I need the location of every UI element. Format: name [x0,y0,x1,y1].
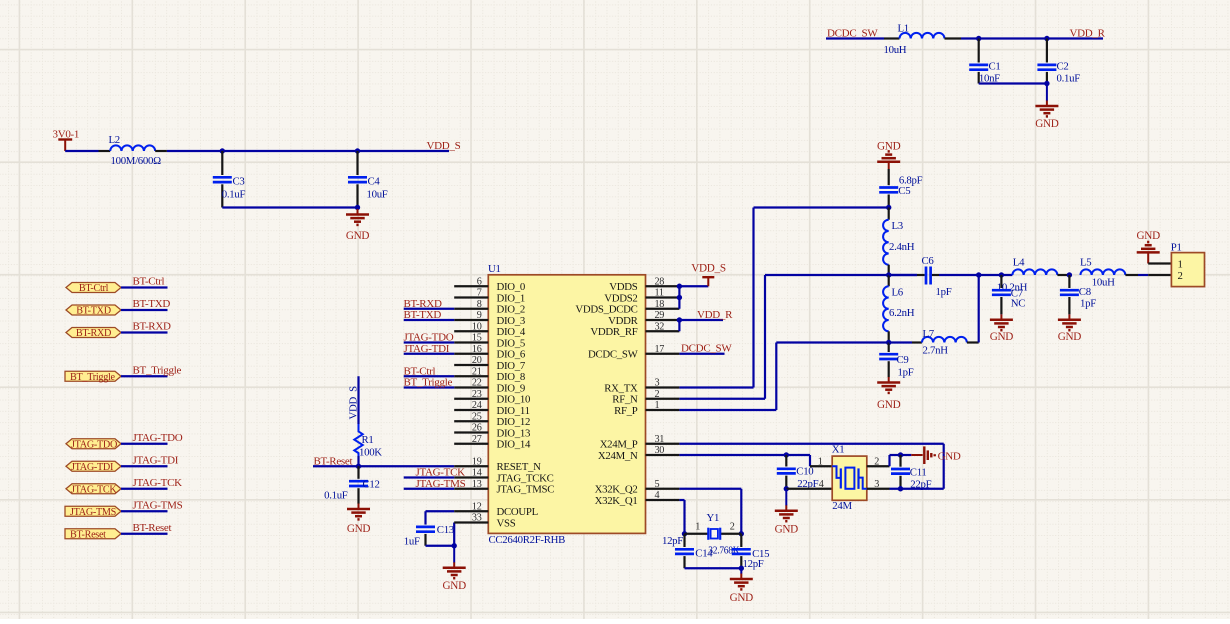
inductor L6 6.2nH [883,275,915,343]
wire VDDS group riser [678,286,680,309]
svg-text:GND: GND [1035,118,1059,130]
svg-text:JTAG-TDO: JTAG-TDO [133,432,183,444]
inductor L7 2.7nH [889,328,979,356]
svg-text:DIO_6: DIO_6 [497,349,526,361]
U1 pin 25 DIO_12 [454,411,530,428]
U1 pin 7 DIO_1 [454,288,525,305]
wire from port JTAG-TMS [121,510,168,512]
ground below C12 [347,504,371,536]
svg-text:DIO_8: DIO_8 [497,371,526,383]
wire X24M_N pin 30 [679,454,786,456]
svg-text:C2: C2 [1057,61,1069,73]
svg-text:100K: 100K [359,447,382,459]
wire L2 to VDD_S [167,150,449,152]
svg-text:JTAG_TCKC: JTAG_TCKC [497,472,554,484]
capacitor C15 12pF [732,534,769,570]
svg-text:NC: NC [1011,297,1025,309]
svg-text:L1: L1 [898,23,909,35]
node junction VSS ground [452,543,457,548]
svg-text:RF_N: RF_N [612,394,638,406]
svg-text:DIO_10: DIO_10 [497,394,531,406]
svg-text:33: 33 [472,513,482,524]
svg-text:GND: GND [938,451,961,463]
U1 pin 16 DIO_6 [454,344,526,361]
node junction L7 main [976,272,981,277]
inductor L5 10uH [1080,257,1138,289]
U1 pin 30 X24M_N [598,445,679,462]
svg-text:DIO_5: DIO_5 [497,337,526,349]
svg-text:C9: C9 [897,354,909,366]
svg-text:JTAG-TDI: JTAG-TDI [133,454,179,466]
svg-text:20: 20 [472,355,482,366]
U1 pin 31 X24M_P [600,434,680,451]
svg-text:RX_TX: RX_TX [604,382,638,394]
svg-text:31: 31 [655,434,665,445]
svg-text:JTAG-TMS: JTAG-TMS [70,507,117,518]
svg-text:2: 2 [730,521,735,532]
svg-text:21: 21 [472,366,482,377]
wire from port BT-RXD [121,331,168,333]
U1 pin 27 DIO_14 [454,434,531,451]
svg-text:U1: U1 [488,263,501,275]
node junction Y1 pin1 C14 [682,531,687,536]
svg-text:1: 1 [1178,259,1183,271]
U1 pin 28 VDDS [609,276,679,293]
svg-text:23: 23 [472,389,482,400]
svg-text:BT-TXD: BT-TXD [76,306,111,317]
crystal X1 24M body [832,444,867,512]
ground below VSS [443,546,467,592]
wire net BT_Triggle to pin 22 [404,386,455,388]
svg-text:DCDC_SW: DCDC_SW [681,343,732,355]
svg-text:1: 1 [655,400,660,411]
svg-text:10: 10 [472,321,482,332]
svg-text:JTAG-TMS: JTAG-TMS [133,499,183,511]
svg-text:BT-Ctrl: BT-Ctrl [133,276,165,288]
svg-text:VDDR_RF: VDDR_RF [590,326,637,338]
wire net JTAG-TDO to pin 15 [404,341,455,343]
U1 pin 14 JTAG_TCKC [454,468,553,485]
svg-text:GND: GND [775,524,799,536]
node junction Y1 pin2 C15 [739,531,744,536]
inductor L3 2.4nH [883,208,915,276]
svg-text:L4: L4 [1013,257,1025,269]
node junction C1 top [976,36,981,41]
svg-text:BT-Ctrl: BT-Ctrl [79,283,109,294]
svg-text:24: 24 [472,400,482,411]
svg-text:DIO_9: DIO_9 [497,382,526,394]
port JTAG-TDI [66,461,121,473]
svg-text:BT-Ctrl: BT-Ctrl [404,365,436,377]
wire pin17 DCDC_SW [679,353,724,355]
ground below C10 [775,489,799,536]
capacitor C10 22pF [777,455,819,490]
node junction pin 29 [677,317,682,322]
svg-text:RF_P: RF_P [614,405,638,417]
svg-text:8: 8 [477,299,482,310]
svg-text:18: 18 [655,299,665,310]
wire DCOUPL to C13 [426,511,455,524]
U1 pin 1 RF_P [614,400,679,417]
svg-text:DIO_7: DIO_7 [497,360,526,372]
wire from port BT-Ctrl [121,286,168,288]
svg-text:BT-RXD: BT-RXD [133,321,171,333]
wire C14 bottom to C15 bottom [685,567,742,569]
U1 pin 20 DIO_7 [454,355,526,372]
U1 pin 12 DCOUPL [454,501,538,518]
svg-text:1: 1 [695,521,700,532]
svg-text:DIO_2: DIO_2 [497,304,526,316]
wire VDD_S vertical to R1 [348,376,360,424]
svg-text:15: 15 [472,333,482,344]
svg-text:JTAG-TDO: JTAG-TDO [71,439,117,450]
svg-text:C5: C5 [898,185,910,197]
wire net JTAG-TDI to pin 16 [404,353,455,355]
svg-text:7: 7 [477,288,482,299]
svg-text:VDDR: VDDR [608,315,638,327]
svg-text:X24M_N: X24M_N [598,450,638,462]
svg-text:1pF: 1pF [898,367,914,379]
ground above C5 [877,140,901,185]
U1 pin 8 DIO_2 [454,299,525,316]
wire pin29 VDD_R [679,319,723,321]
U1 pin 24 DIO_11 [454,400,529,417]
svg-text:30: 30 [655,445,665,456]
U1 pin 3 RX_TX [604,378,679,395]
wire net JTAG-TCK to pin 14 [404,476,455,478]
U1 pin 9 DIO_3 [454,310,525,327]
power port VDD_S [691,262,726,286]
svg-text:P1: P1 [1171,241,1182,253]
wire net BT-TXD to pin 9 [404,319,455,321]
svg-text:6: 6 [477,276,482,287]
wire 3V0-1 to L2 [65,150,98,152]
svg-text:GND: GND [1058,331,1082,343]
svg-text:5: 5 [655,479,660,490]
svg-text:X1: X1 [832,444,845,456]
node junction C10 top [784,452,789,457]
U1 pin 11 VDDS2 [604,288,679,305]
wire C1 bottom to C2 bottom [979,82,1047,84]
power port 3V0-1 [53,129,80,151]
svg-text:VDD_R: VDD_R [697,309,733,321]
wire X24M_P pin 31 [679,443,943,445]
ground below C15 [730,568,754,604]
svg-text:6.2nH: 6.2nH [889,307,915,319]
svg-text:13: 13 [472,479,482,490]
U1 pin 26 DIO_13 [454,423,530,440]
wire from port JTAG-TCK [121,488,168,490]
svg-text:BT-Reset: BT-Reset [133,522,172,534]
svg-text:27: 27 [472,434,482,445]
capacitor C8 1pF [1060,275,1096,314]
svg-text:GND: GND [1137,230,1161,242]
capacitor C13 1uF [404,524,454,548]
svg-text:L5: L5 [1080,257,1091,269]
svg-text:L3: L3 [892,220,903,232]
port JTAG-TDO [66,439,121,451]
U1 pin 22 DIO_9 [454,378,525,395]
svg-text:R1: R1 [362,434,374,446]
node junction C3 top [220,148,225,153]
port BT-Ctrl [66,283,121,295]
svg-text:2: 2 [1178,270,1183,282]
svg-text:JTAG-TDI: JTAG-TDI [71,462,114,473]
svg-text:VSS: VSS [497,517,516,529]
U1 pin 32 VDDR_RF [590,321,679,338]
capacitor C11 22pF [891,455,932,490]
svg-text:DIO_13: DIO_13 [497,427,531,439]
wire from port BT-Reset [121,533,168,535]
svg-text:VDDS_DCDC: VDDS_DCDC [575,304,637,316]
U1 pin 4 X32K_Q1 [595,490,680,507]
svg-text:4: 4 [655,490,660,501]
U1 pin 6 DIO_0 [454,276,525,293]
svg-text:BT-RXD: BT-RXD [76,328,111,339]
U1 pin 19 RESET_N [454,456,541,473]
svg-text:BT-Reset: BT-Reset [70,529,106,540]
port JTAG-TCK [66,484,121,496]
svg-text:DIO_3: DIO_3 [497,315,526,327]
svg-text:C11: C11 [910,466,927,478]
svg-text:1pF: 1pF [1080,297,1096,309]
capacitor C14 12pF [662,534,713,569]
node junction C4 top [355,148,360,153]
node junction C15 bottom [739,566,744,571]
ground below C2 [1035,84,1059,131]
svg-text:11: 11 [655,288,664,299]
ground right of C11 rotated [901,446,961,464]
wire X32K_Q2 pin 5 [679,488,741,490]
wire pin28 to VDD_S power [679,285,708,287]
svg-text:C3: C3 [233,176,245,188]
svg-text:DIO_4: DIO_4 [497,326,526,338]
wire BT-Reset to RESET_N pin 19 [313,465,454,467]
node junction R1 C12 [356,464,361,469]
svg-text:17: 17 [655,344,665,355]
svg-text:2: 2 [655,389,660,400]
svg-text:DIO_14: DIO_14 [497,439,531,451]
U1 pin 5 X32K_Q2 [595,479,680,496]
svg-text:X32K_Q1: X32K_Q1 [595,495,638,507]
wire RF_N pin 2 to RF mid node [679,398,765,400]
net label DCDC_SW [826,28,884,40]
node junction C8 L5 [1067,272,1072,277]
U1 pin 2 RF_N [612,389,679,406]
svg-text:X32K_Q2: X32K_Q2 [595,484,638,496]
svg-text:C8: C8 [1079,286,1091,298]
node junction C11 top [898,452,903,457]
ground below C4 [346,208,370,243]
wire net BT-Ctrl to pin 21 [404,375,455,377]
svg-text:C12: C12 [363,479,380,491]
port BT_Triggle [65,371,121,383]
wire C3 bottom to C4 bottom [222,206,357,208]
svg-text:BT-RXD: BT-RXD [404,298,442,310]
svg-text:2.4nH: 2.4nH [889,241,915,253]
capacitor C9 1pF [879,343,913,379]
svg-text:VDD_S: VDD_S [427,140,461,152]
svg-text:VDD_S: VDD_S [691,262,726,274]
svg-text:DIO_0: DIO_0 [497,281,526,293]
svg-text:Y1: Y1 [707,512,720,524]
svg-text:JTAG-TDI: JTAG-TDI [404,343,450,355]
svg-text:L7: L7 [923,328,935,340]
U1 pin 29 VDDR [608,310,679,327]
wire net JTAG-TMS to pin 13 [404,488,455,490]
svg-text:16: 16 [472,344,482,355]
svg-text:GND: GND [730,592,754,604]
port BT-RXD [66,328,121,340]
svg-text:C10: C10 [796,465,813,477]
wire RX_TX pin 3 to RF top node [679,386,753,388]
capacitor C4 10uF [348,151,388,208]
svg-text:12pF: 12pF [743,558,764,570]
connector P1 [1171,241,1205,286]
svg-text:JTAG-TMS: JTAG-TMS [416,478,466,490]
svg-text:DIO_11: DIO_11 [497,405,530,417]
node junction C11 bottom [898,486,903,491]
svg-text:12pF: 12pF [662,535,683,547]
inductor L1 [884,23,962,57]
svg-text:JTAG-TCK: JTAG-TCK [133,477,183,489]
capacitor C5 6.8pF [879,174,922,207]
svg-text:10uH: 10uH [1092,276,1115,288]
capacitor C12 0.1uF [324,466,380,504]
svg-text:22: 22 [472,378,482,389]
svg-text:JTAG-TCK: JTAG-TCK [416,467,466,479]
svg-text:GND: GND [990,331,1014,343]
svg-text:0.1uF: 0.1uF [324,490,348,502]
ground below C9 [877,377,901,411]
svg-text:RESET_N: RESET_N [497,461,542,473]
svg-text:29: 29 [655,310,665,321]
wire from port JTAG-TDO [121,443,168,445]
svg-text:24M: 24M [832,500,852,512]
wire X1 pin 2 to C11 top [867,465,890,467]
op IC U1 body [488,275,645,534]
svg-text:C4: C4 [368,176,381,188]
wire X32K_Q1 pin 4 [679,499,684,501]
node junction pin 28 [677,284,682,289]
svg-text:10uF: 10uF [367,189,388,201]
node junction C2 bottom [1044,81,1049,86]
wire C6 to L4 [939,274,1012,276]
svg-text:BT_Triggle: BT_Triggle [404,377,453,389]
svg-text:GND: GND [877,399,901,411]
svg-text:BT_Triggle: BT_Triggle [70,372,116,383]
inductor L4 [1012,257,1069,276]
wire from port BT_Triggle [121,375,168,377]
port BT-TXD [66,305,121,317]
U1 pin 13 JTAG_TMSC [454,479,554,496]
svg-text:32: 32 [655,321,665,332]
node junction C2 top [1044,36,1049,41]
svg-text:GND: GND [443,580,467,592]
U1 pin 18 VDDS_DCDC [575,299,679,316]
svg-text:GND: GND [347,523,371,535]
svg-text:10uH: 10uH [884,44,907,56]
svg-text:JTAG-TDO: JTAG-TDO [404,332,454,344]
svg-text:26: 26 [472,423,482,434]
ground above P1 pin 1 [1137,230,1172,264]
wire RF_P pin 1 to RF bottom node [679,409,776,411]
capacitor C2 0.1uF [1037,39,1080,85]
svg-text:0.1uF: 0.1uF [222,189,246,201]
capacitor C7 NC [992,275,1025,314]
wire VDDR group riser [678,320,680,331]
wire C13 bottom to VSS node [426,545,455,547]
svg-text:GND: GND [877,140,901,152]
capacitor C6 1pF [889,255,952,298]
port JTAG-TMS [65,506,121,518]
wire X24M_N to X1 pin 1 [786,454,810,456]
svg-text:0.1uF: 0.1uF [1057,72,1081,84]
crystal Y1 32.768K [685,512,742,540]
svg-text:25: 25 [472,411,482,422]
svg-text:BT-TXD: BT-TXD [133,298,171,310]
svg-text:CC2640R2F-RHB: CC2640R2F-RHB [489,534,566,546]
svg-text:BT-TXD: BT-TXD [404,309,442,321]
svg-text:DCOUPL: DCOUPL [497,506,538,518]
U1 pin 33 VSS [454,513,516,530]
svg-text:C6: C6 [922,255,935,267]
wire X1 pin 3 to X24M_P riser [867,488,890,490]
capacitor C3 0.1uF [213,151,246,208]
svg-text:DIO_12: DIO_12 [497,416,531,428]
ground below C7 [990,314,1014,343]
node junction C4 bottom [355,205,360,210]
wire from port JTAG-TDI [121,465,168,467]
wire L5 to P1 [1138,274,1148,276]
svg-text:3: 3 [655,378,660,389]
svg-text:9: 9 [477,310,482,321]
U1 pin 21 DIO_8 [454,366,525,383]
node junction C10 bottom [784,486,789,491]
svg-text:14: 14 [472,468,482,479]
svg-text:1: 1 [818,456,823,467]
svg-text:L2: L2 [109,134,120,146]
node junction pin 11 [677,295,682,300]
svg-text:VDDS: VDDS [609,281,637,293]
U1 pin 17 DCDC_SW [588,344,679,361]
node junction RX_TX C5 L3 [886,205,891,210]
svg-text:DIO_1: DIO_1 [497,292,526,304]
svg-text:C13: C13 [437,524,454,536]
svg-text:1uF: 1uF [404,536,420,548]
svg-text:X24M_P: X24M_P [600,439,638,451]
svg-text:1pF: 1pF [936,286,952,298]
svg-text:28: 28 [655,276,665,287]
svg-text:JTAG_TMSC: JTAG_TMSC [497,484,555,496]
U1 pin 10 DIO_4 [454,321,526,338]
wire net BT-RXD to pin 8 [404,308,455,310]
svg-text:L6: L6 [892,287,904,299]
capacitor C1 10nF [969,39,1000,85]
inductor L2 100M/600ohm [99,134,167,167]
svg-text:JTAG-TCK: JTAG-TCK [71,484,117,495]
port BT-Reset [65,529,121,541]
svg-text:BT_Triggle: BT_Triggle [133,364,182,376]
node junction RF_N L3 L6 C6 [886,272,891,277]
wire L1 to VDD_R [961,37,1103,39]
ground below C8 [1058,314,1082,343]
svg-text:19: 19 [472,456,482,467]
wire from port BT-TXD [121,309,168,311]
wire VSS down [453,523,455,546]
svg-text:4: 4 [819,479,824,490]
svg-text:100M/600Ω: 100M/600Ω [111,155,162,167]
